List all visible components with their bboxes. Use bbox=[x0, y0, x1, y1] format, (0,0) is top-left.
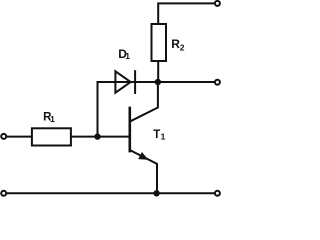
svg-text:2: 2 bbox=[180, 43, 185, 53]
svg-text:1: 1 bbox=[50, 114, 55, 124]
svg-text:1: 1 bbox=[161, 132, 166, 142]
svg-text:T: T bbox=[153, 129, 160, 141]
svg-text:1: 1 bbox=[125, 51, 130, 61]
